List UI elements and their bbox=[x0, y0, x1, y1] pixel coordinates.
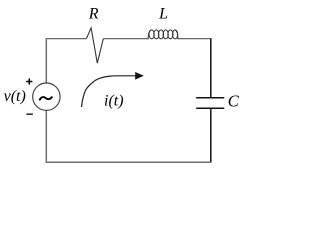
svg-text:v(t): v(t) bbox=[4, 88, 26, 105]
svg-text:i(t): i(t) bbox=[104, 93, 124, 110]
svg-text:R: R bbox=[88, 6, 99, 23]
svg-text:C: C bbox=[228, 91, 240, 110]
svg-text:L: L bbox=[158, 6, 168, 23]
